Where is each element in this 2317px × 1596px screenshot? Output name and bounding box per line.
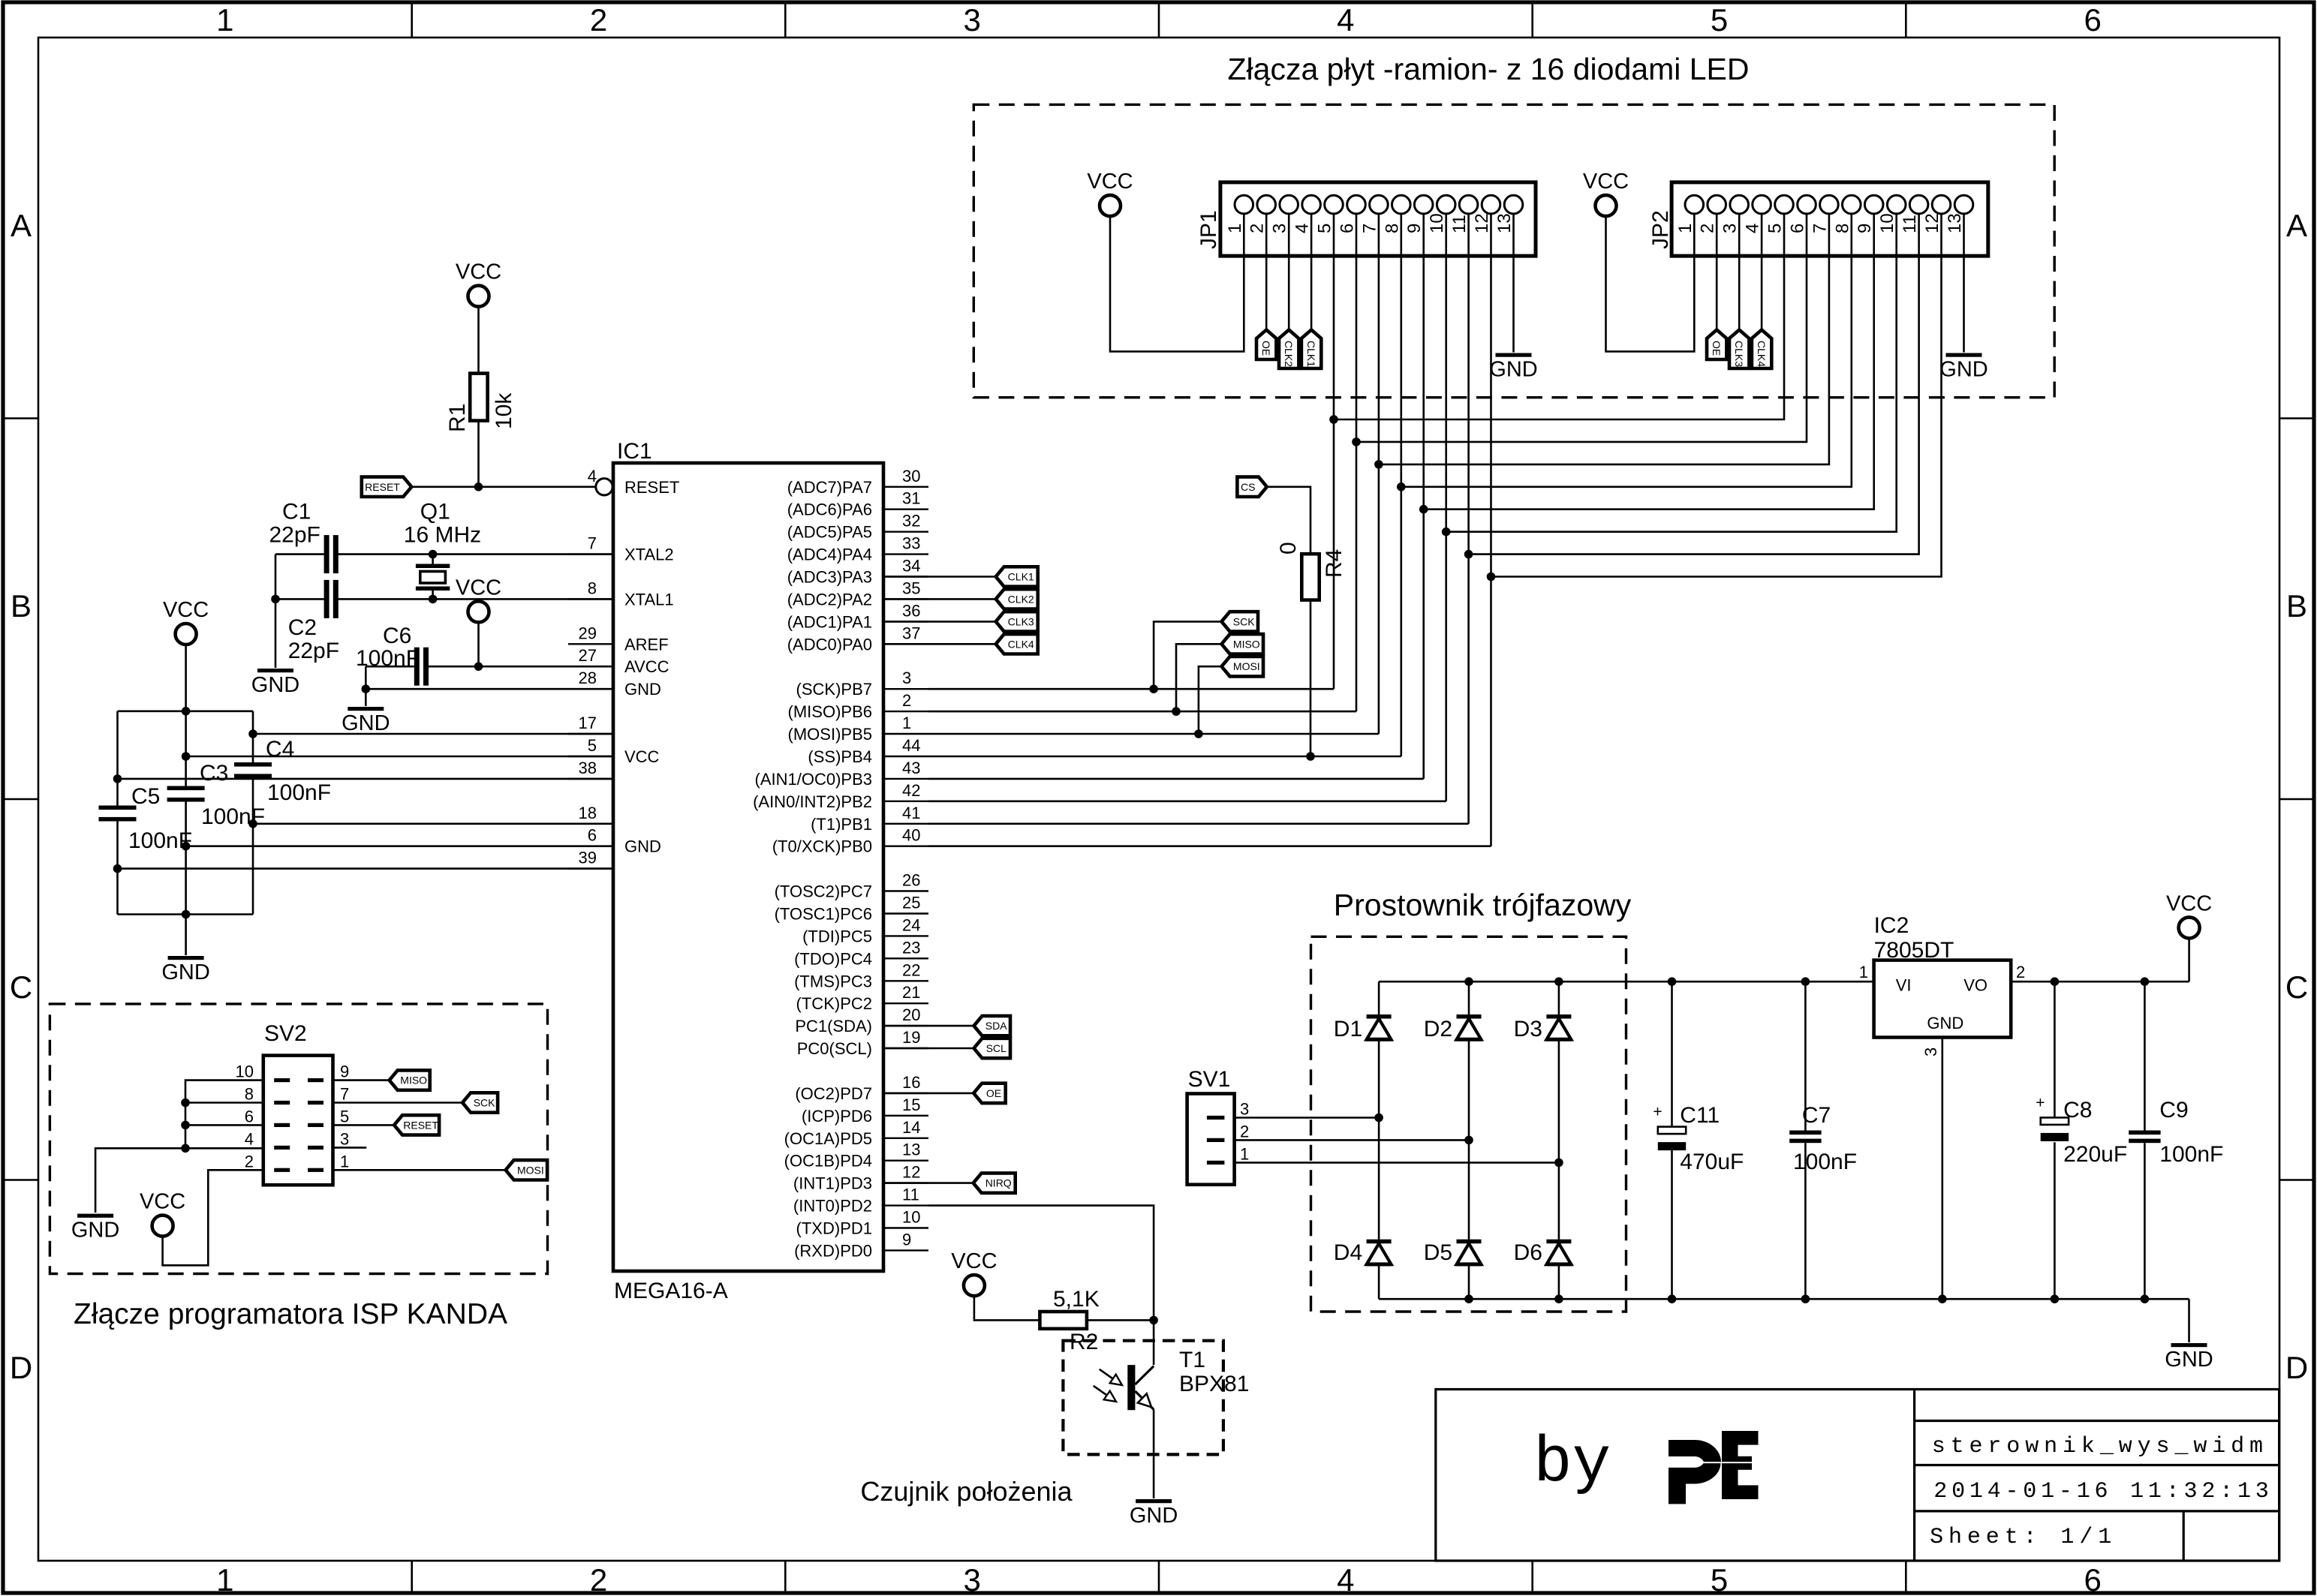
diode D6 [1546,1240,1571,1244]
net flag MISO (SV2) [390,1070,430,1090]
wire SV2 pin9 [333,1079,390,1081]
resistor R4 [1301,554,1319,600]
svg-text:BPX81: BPX81 [1179,1372,1249,1396]
svg-text:30: 30 [902,467,920,485]
ground GND T1 [1136,1499,1172,1503]
svg-text:CLK4: CLK4 [1008,638,1034,650]
svg-text:MOSI: MOSI [517,1164,544,1176]
wire pin39 net [118,867,614,870]
svg-text:C8: C8 [2063,1098,2092,1123]
svg-text:34: 34 [902,557,920,576]
svg-text:2: 2 [2016,963,2025,981]
svg-text:Czujnik położenia: Czujnik położenia [860,1476,1073,1507]
svg-text:1: 1 [1240,1144,1249,1163]
svg-text:6: 6 [1338,224,1358,233]
junction R4 bottom [1306,752,1315,761]
svg-text:22: 22 [902,960,920,979]
ground GND rail [168,956,204,960]
svg-text:SCK: SCK [1233,615,1255,627]
wire pin20 SDA [883,1025,974,1027]
power VCC C3 [176,624,197,645]
wire JP1 pin8 vertical [1401,213,1403,756]
capacitor C1 [324,535,329,573]
svg-text:SV2: SV2 [264,1021,307,1046]
wire SV2 pin4 [185,1147,263,1150]
wire SV2 GND side [95,1081,263,1213]
svg-text:GND: GND [1939,358,1988,382]
connector JP1 [1220,182,1536,256]
net flag CLK3 (JP2) [1729,330,1749,369]
junction Q1 bottom [429,595,438,604]
wire VCC to JP2 pin1 [1606,213,1695,351]
junction C8 bottom [2051,1294,2060,1303]
svg-text:(AIN1/OC0)PB3: (AIN1/OC0)PB3 [755,770,873,789]
svg-text:6: 6 [245,1107,254,1126]
junction R2 T1 [1149,1316,1158,1325]
svg-text:C2: C2 [288,615,317,640]
svg-text:28: 28 [579,669,597,687]
svg-text:GND: GND [251,673,299,697]
svg-text:MEGA16-A: MEGA16-A [614,1279,728,1303]
wire PB net row16 [928,845,1491,847]
wire JP1 pin6 vertical [1356,213,1358,711]
net flag SCK (SV2) [462,1093,498,1112]
svg-text:3: 3 [964,1562,981,1596]
svg-text:10k: 10k [492,392,516,429]
svg-text:PC0(SCL): PC0(SCL) [797,1039,872,1058]
svg-text:A: A [2286,208,2307,243]
wire VCC to AVCC [477,621,480,666]
svg-text:1: 1 [1675,224,1696,233]
wire SV2 pin7 [333,1102,463,1104]
svg-text:22pF: 22pF [288,639,339,663]
svg-text:(TMS)PC3: (TMS)PC3 [794,972,872,990]
svg-text:(TXD)PD1: (TXD)PD1 [796,1219,872,1238]
net flag CLK1 (JP1) [1301,330,1321,369]
wire MOSI flag [1199,666,1222,734]
svg-text:100nF: 100nF [128,828,192,853]
wire PA pin to CLK2 [883,598,996,600]
svg-text:(MOSI)PB5: (MOSI)PB5 [788,725,872,744]
wire pin5 net [186,756,613,758]
junction C6 GND row [362,684,371,693]
wire INT0 net [928,1206,1154,1366]
svg-text:24: 24 [902,915,920,934]
svg-text:220uF: 220uF [2063,1142,2127,1167]
junction C4 pin18 [248,819,257,828]
svg-text:C4: C4 [266,737,294,762]
junction phase 1 [1554,1159,1563,1168]
svg-text:OE: OE [986,1087,1001,1099]
svg-text:39: 39 [579,849,597,867]
svg-text:19: 19 [902,1028,920,1047]
svg-text:+: + [1653,1104,1662,1121]
net flag OE (JP2) [1707,330,1726,360]
svg-text:36: 36 [902,601,920,620]
voltage regulator IC2 7805DT [1874,960,2012,1038]
net flag OE (JP1) [1256,330,1276,360]
wire JP2 pin3 to flag CLK3 [1738,213,1741,329]
svg-text:(TDO)PC4: (TDO)PC4 [794,949,872,968]
wire PB net row15 [928,823,1469,825]
wire VCC to R2 [974,1295,1040,1321]
svg-text:44: 44 [902,736,920,755]
svg-text:3: 3 [340,1129,349,1148]
svg-text:(ADC2)PA2: (ADC2)PA2 [787,590,872,609]
svg-text:13: 13 [1494,213,1515,233]
svg-text:(AIN0/INT2)PB2: (AIN0/INT2)PB2 [753,792,872,811]
svg-text:5: 5 [1711,2,1728,38]
junction V+ D3 [1554,977,1563,986]
wire JP1 pin3 to flag CLK2 [1288,213,1290,329]
junction JP1 pin11 bus [1464,550,1473,559]
svg-text:16: 16 [902,1073,920,1092]
wire bus row to JP2 pin6 [1356,213,1807,442]
svg-text:10: 10 [1877,213,1897,233]
junction C3 pin6 [182,842,191,851]
svg-text:10: 10 [902,1208,920,1227]
svg-text:C: C [2285,969,2308,1005]
svg-text:(TOSC2)PC7: (TOSC2)PC7 [775,882,872,901]
svg-text:VCC: VCC [163,598,209,622]
svg-text:12: 12 [1922,213,1942,233]
wire bus row to JP2 pin8 [1401,213,1852,486]
svg-text:NIRQ: NIRQ [985,1177,1012,1189]
svg-text:2: 2 [1698,224,1718,233]
svg-text:IC2: IC2 [1874,913,1909,938]
svg-text:4: 4 [245,1129,254,1148]
svg-text:VI: VI [1896,975,1912,994]
svg-text:38: 38 [579,759,597,777]
IC U1 IC1 MEGA16-A microcontroller [613,463,883,1271]
wire VCC down to rail [185,644,187,711]
svg-text:3: 3 [1240,1100,1249,1119]
svg-text:5: 5 [1315,224,1335,233]
connector SV1 [1187,1094,1235,1185]
svg-text:6: 6 [588,826,597,845]
junction phase 2 [1464,1136,1473,1145]
svg-text:VCC: VCC [1087,170,1133,194]
net flag MOSI (SV2) [506,1160,548,1180]
junction C5 pin39 [113,864,122,873]
svg-text:12: 12 [1472,213,1492,233]
svg-text:8: 8 [1382,224,1402,233]
svg-text:7: 7 [1810,224,1830,233]
svg-text:0: 0 [1276,542,1301,555]
wire SV2 pin3 stub [333,1147,367,1149]
wire VCC to VO [2188,937,2190,981]
svg-text:+: + [2036,1094,2045,1111]
wire C6 to GND [365,689,367,706]
svg-text:1: 1 [902,714,911,732]
svg-text:2014-01-16 11:32:13: 2014-01-16 11:32:13 [1933,1479,2273,1504]
svg-text:Q1: Q1 [420,500,450,524]
svg-text:(T0/XCK)PB0: (T0/XCK)PB0 [772,837,872,856]
svg-text:26: 26 [902,871,920,890]
junction C11 top [1668,977,1677,986]
wire phase2 [1235,1139,1469,1141]
svg-text:1: 1 [216,1562,233,1596]
svg-text:D3: D3 [1514,1017,1542,1041]
ground GND C6 [348,707,384,711]
wire JP1 pin7 vertical [1378,213,1380,734]
svg-text:sterownik_wys_widm: sterownik_wys_widm [1932,1434,2268,1459]
junction phase 3 [1374,1114,1383,1123]
wire diode column D1 [1378,981,1380,1299]
wire bottom rail caps [118,913,254,915]
wire pin16 OE [883,1093,973,1095]
svg-text:7: 7 [588,534,597,553]
svg-text:7: 7 [1359,224,1380,233]
capacitor C2 [324,580,329,618]
wire phase1 [1235,1162,1559,1164]
wire rail to GND [185,915,187,956]
svg-text:GND: GND [1130,1504,1178,1528]
svg-text:Sheet: 1/1: Sheet: 1/1 [1930,1525,2117,1550]
wire pin6 net [186,845,613,847]
ground GND C1C2 [257,669,293,672]
wire JP1 pin9 vertical [1422,213,1425,779]
svg-text:(SCK)PB7: (SCK)PB7 [796,680,872,699]
wire SV2 pin1 [333,1169,506,1171]
wire JP2 pin2 to flag OE [1716,213,1718,329]
diode D2 [1457,1014,1482,1019]
junction JP1 pin12 bus [1487,573,1496,582]
junction JP1 pin9 bus [1419,505,1428,514]
wire PB net row11 [928,733,1379,735]
svg-text:(TOSC1)PC6: (TOSC1)PC6 [775,905,872,924]
svg-text:CLK1: CLK1 [1008,571,1034,583]
svg-text:SDA: SDA [985,1020,1007,1032]
dashed box position sensor [1063,1341,1223,1455]
svg-text:2: 2 [1240,1122,1249,1141]
junction SV2 pin6 [181,1121,190,1130]
svg-text:CLK2: CLK2 [1283,341,1295,367]
connector SV2 [263,1056,333,1186]
connector JP2 [1672,182,1988,256]
svg-text:6: 6 [1788,224,1808,233]
wire MISO flag [1176,644,1222,711]
svg-text:100nF: 100nF [2159,1142,2223,1167]
wire diode column D2 [1468,981,1470,1299]
svg-text:8: 8 [588,579,597,597]
svg-text:T1: T1 [1179,1348,1205,1372]
svg-text:4: 4 [1292,224,1313,233]
junction C9 top [2141,977,2150,986]
wire diode column D3 [1558,981,1560,1299]
power VCC output [2179,917,2200,938]
svg-text:GND: GND [1489,358,1537,382]
svg-text:(ADC4)PA4: (ADC4)PA4 [787,546,872,564]
wire R1 to RESET net [477,421,480,487]
wire GND28 net [366,688,613,690]
svg-text:100nF: 100nF [267,780,331,805]
svg-text:D2: D2 [1424,1017,1452,1041]
svg-text:CLK4: CLK4 [1756,341,1768,367]
svg-text:B: B [11,588,32,624]
power VCC R2 [964,1275,985,1296]
svg-text:C9: C9 [2159,1098,2188,1123]
wire bus row to JP2 pin9 [1424,213,1874,509]
svg-text:SV1: SV1 [1188,1067,1231,1092]
svg-text:XTAL1: XTAL1 [624,590,674,609]
wire C1 left down [275,555,277,600]
svg-text:1: 1 [1859,963,1868,981]
svg-text:(ADC3)PA3: (ADC3)PA3 [787,568,872,587]
svg-text:GND: GND [624,680,661,699]
svg-text:C3: C3 [200,761,228,786]
junction bottom rail [182,910,191,919]
svg-text:21: 21 [902,983,920,1002]
svg-text:C6: C6 [383,624,411,648]
junction SV2 pin8 [181,1099,190,1108]
svg-text:5: 5 [340,1107,349,1126]
svg-text:18: 18 [579,804,597,822]
svg-text:41: 41 [902,804,920,822]
net flag CLK2 (JP1) [1279,330,1298,369]
capacitor C11 [1671,981,1673,1126]
svg-text:GND: GND [2165,1348,2213,1372]
net flag CLK4 (JP2) [1752,330,1771,369]
wire PB net row12 [928,756,1401,758]
wire C6 left down [365,666,367,689]
resistor R2 [1040,1312,1087,1329]
svg-text:C11: C11 [1680,1103,1720,1128]
svg-text:CLK1: CLK1 [1305,341,1317,367]
svg-text:17: 17 [579,714,597,732]
svg-text:5: 5 [1711,1562,1728,1596]
svg-text:4: 4 [588,467,597,485]
svg-text:12: 12 [902,1163,920,1182]
svg-text:4: 4 [1743,224,1763,233]
wire PA pin to CLK4 [883,643,996,645]
svg-text:5: 5 [588,736,597,755]
svg-text:C1: C1 [282,500,311,524]
svg-text:(SS)PB4: (SS)PB4 [808,747,872,766]
wire SV2 pin6 [185,1124,263,1126]
wire pin19 SCL [883,1047,974,1050]
svg-text:C5: C5 [131,784,160,809]
junction SV2 pin4 [181,1144,190,1153]
svg-text:D5: D5 [1424,1240,1452,1265]
svg-text:C: C [10,969,32,1005]
svg-text:XTAL2: XTAL2 [624,546,674,564]
power VCC R1 [468,286,489,307]
svg-text:40: 40 [902,826,920,845]
svg-text:22pF: 22pF [269,523,320,548]
wire JP1 pin5 vertical [1333,213,1335,689]
junction R1 RESET [474,482,483,491]
wire bus row to JP2 pin11 [1469,213,1919,554]
svg-text:VCC: VCC [951,1249,997,1273]
svg-text:PC1(SDA): PC1(SDA) [795,1017,872,1035]
svg-text:100nF: 100nF [1793,1150,1857,1174]
svg-text:JP2: JP2 [1648,210,1673,249]
svg-text:8: 8 [245,1085,254,1104]
diode D5 [1457,1240,1482,1244]
svg-text:(OC2)PD7: (OC2)PD7 [795,1084,872,1103]
net flag MISO (IC1) [1222,634,1264,654]
wire bus row to JP2 pin12 [1491,213,1942,576]
wire VCC to SV2 pin2 [163,1170,263,1265]
svg-text:11: 11 [1449,215,1470,233]
capacitor C7 [1804,981,1807,1130]
svg-text:A: A [11,208,32,243]
junction AVCC [474,662,483,671]
svg-text:(OC1B)PD4: (OC1B)PD4 [784,1152,872,1171]
title block [1436,1390,2279,1561]
svg-text:CLK2: CLK2 [1008,593,1034,605]
wire VCC to R1 [477,305,480,373]
svg-text:6: 6 [2084,2,2102,38]
svg-text:(ADC5)PA5: (ADC5)PA5 [787,523,872,542]
junction C7 top [1801,977,1810,986]
power VCC SV2 [152,1216,173,1237]
svg-text:SCK: SCK [474,1097,495,1109]
wire XTAL1 net [339,598,614,600]
wire PB net row9 [928,688,1334,690]
logo PE [1669,1440,1721,1462]
wire JP2 pin13 to GND [1963,213,1965,352]
svg-text:(MISO)PB6: (MISO)PB6 [788,702,872,721]
wire XTAL2 net [339,553,614,555]
svg-text:(T1)PB1: (T1)PB1 [811,815,872,834]
svg-text:1: 1 [216,2,233,38]
crystal Q1 [432,555,434,564]
junction JP1 pin6 bus [1352,437,1361,446]
svg-text:AREF: AREF [624,635,669,654]
capacitor C5 [116,711,119,806]
svg-text:GND: GND [71,1219,119,1243]
junction V+ D2 [1464,977,1473,986]
wire JP1 pin2 to flag OE [1265,213,1268,329]
junction MOSI [1194,729,1203,738]
wire RESET flag to IC1 pin4 [411,485,595,488]
wire GND drop [2188,1299,2190,1342]
wire PB net row13 [928,778,1424,780]
svg-text:10: 10 [236,1062,254,1081]
net flag CS [1237,477,1267,497]
junction Q1 top [429,550,438,559]
wire T1 emitter to GND [1153,1409,1155,1498]
svg-text:20: 20 [902,1005,920,1024]
svg-text:4: 4 [1337,1562,1354,1596]
dashed group box ISP KANDA [50,1004,547,1274]
svg-text:6: 6 [2084,1562,2102,1596]
svg-text:IC1: IC1 [617,439,652,464]
wire pin17 net [253,733,613,735]
net flag RESET (SV2) [394,1115,439,1135]
wire JP1 pin4 to flag CLK1 [1310,213,1313,329]
wire JP1 pin13 to GND [1512,213,1515,352]
junction C4 pin17 [248,729,257,738]
wire bus row to JP2 pin7 [1379,213,1829,464]
svg-text:RESET: RESET [365,481,400,493]
svg-text:7805DT: 7805DT [1874,938,1954,963]
svg-text:AVCC: AVCC [624,657,670,676]
svg-text:9: 9 [902,1230,911,1249]
svg-text:4: 4 [1337,2,1354,38]
junction GND D5 [1464,1294,1473,1303]
svg-text:(OC1A)PD5: (OC1A)PD5 [784,1129,872,1148]
svg-text:25: 25 [902,894,920,912]
junction C7 bottom [1801,1294,1810,1303]
diode D1 [1367,1014,1392,1019]
wire PB net row10 [928,711,1356,713]
svg-text:GND: GND [342,711,390,735]
wire bus row to JP2 pin5 [1334,213,1784,419]
svg-text:RESET: RESET [624,478,679,497]
